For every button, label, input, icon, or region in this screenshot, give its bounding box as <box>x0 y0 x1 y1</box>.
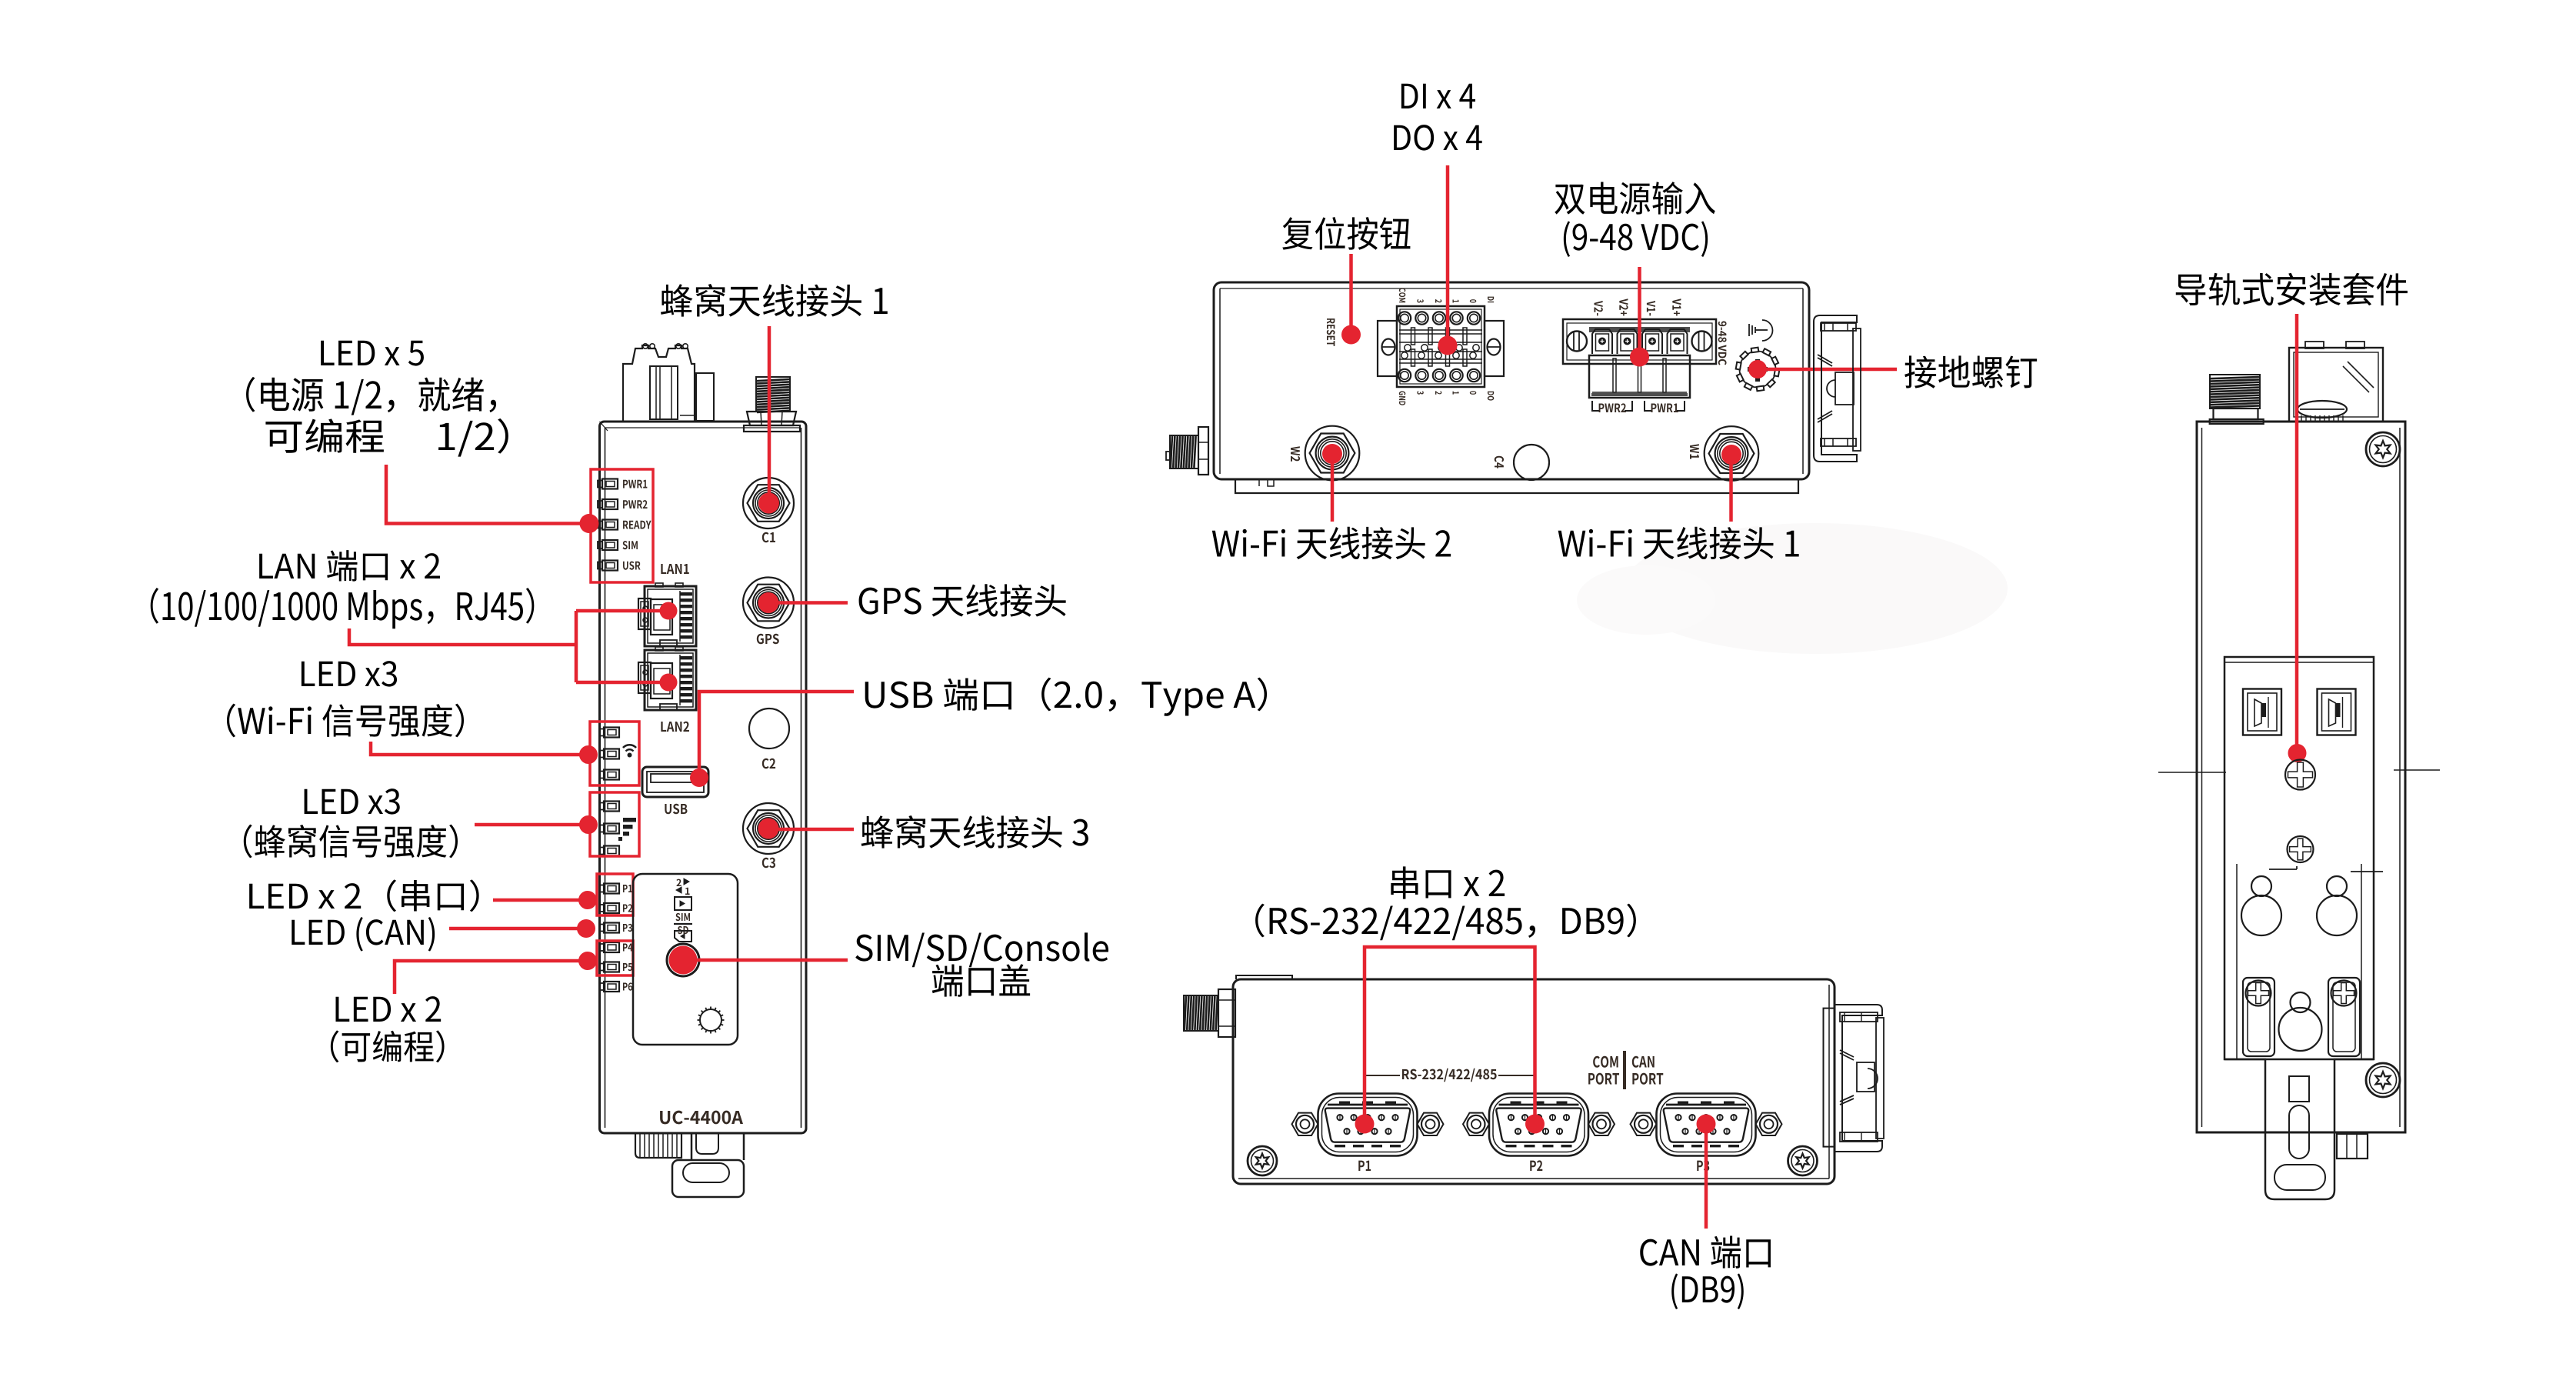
front view: red highlight box around Wi-Fi LEDs <box>590 722 639 785</box>
top view: power terminal labels V2- V2+ V1- V1+ <box>1595 298 1681 315</box>
front view: red callout dot P1 P2 <box>578 891 597 909</box>
top view: label Wi-Fi antenna connector 2 <box>1212 527 1451 560</box>
front view: GPS antenna connector <box>743 578 794 628</box>
front view: label GPS connector <box>757 634 779 645</box>
wire: red callout line CAN port label <box>1705 1124 1708 1229</box>
rear view: bracket center pin <box>2279 992 2322 1051</box>
wire: red callout bracket serial ports <box>1365 947 1535 1124</box>
top view: red callout dot W2 <box>1322 444 1342 464</box>
front view: label LED x3 cellular <box>244 789 458 858</box>
bottom view: red callout dot P2 <box>1525 1115 1545 1134</box>
wire: red callout line DI/DO label <box>1446 165 1450 343</box>
front view: label USB <box>665 804 687 815</box>
top view: label W1 <box>1690 444 1699 458</box>
bottom view: serial port P2 (DB9) <box>1463 1094 1615 1156</box>
front view: red callout dot cellular LEDs <box>579 815 598 834</box>
rear view: bracket tail <box>2224 1059 2374 1199</box>
front view: serial/CAN/programmable LED column P1-P6 <box>599 884 632 992</box>
bottom view: left antenna stub (side) <box>1184 989 1235 1037</box>
bottom view: torx screw left <box>1248 1146 1277 1175</box>
front view: LAN1 RJ45 port <box>638 583 696 646</box>
top view: RESET button label <box>1327 318 1335 346</box>
front view: red callout dot USB <box>690 769 708 787</box>
front view: cover thumbscrew <box>698 1007 725 1034</box>
wire: red callout line programmable LED label <box>395 961 580 994</box>
wire: red callout line cellular antenna 3 <box>775 828 854 832</box>
wire: red callout bracket LAN ports <box>349 628 576 645</box>
bottom view: COM PORT / CAN PORT labels <box>1588 1051 1663 1089</box>
front view: red callout dot Wi-Fi LEDs <box>579 745 598 764</box>
top view: label reset button <box>1282 217 1410 250</box>
front view: label cellular antenna connector 1 <box>661 284 888 317</box>
wire: red callout line power input label <box>1638 267 1641 355</box>
rear view: label DIN rail mounting kit <box>2176 273 2408 306</box>
top view: grounding screw <box>1736 348 1780 392</box>
front view: cellular antenna connector C1 <box>743 478 794 528</box>
top view: device body <box>1214 282 1809 479</box>
top view: red callout dot W1 <box>1721 445 1741 465</box>
front view: red callout dot SIM/SD cover <box>669 946 698 975</box>
rear view: red callout dot bracket <box>2288 744 2307 762</box>
top view: left Wi-Fi antenna stub (side) <box>1166 427 1208 475</box>
top view: red callout dot DI/DO <box>1438 336 1458 355</box>
rear view: slotted tab right with screw <box>2328 978 2360 1056</box>
wire: red callout line serial LED label <box>493 899 580 902</box>
front view: device body (UC-4400A front panel) <box>600 422 807 1133</box>
top view: power terminal block <box>1563 319 1716 398</box>
front view: label LED x2 serial <box>249 879 479 912</box>
front view: label LED CAN <box>292 917 435 952</box>
front view: red highlight box P1 P2 <box>597 874 633 915</box>
front view: SIM/SD/console cover plate <box>633 874 738 1045</box>
front view: top DIN-rail clip <box>623 344 714 421</box>
top view: label W2 <box>1291 446 1300 462</box>
front view: label LAN ports x2 <box>151 550 535 628</box>
bottom view: device body <box>1233 975 1835 1184</box>
front view: label C2 <box>762 759 775 769</box>
rear view: bracket phillips screw 1 <box>2285 760 2315 790</box>
front view: red callout dot GPS <box>758 592 779 613</box>
wire: red callout line cellular LED label <box>475 823 581 827</box>
front view: cellular signal bars icon <box>618 818 636 841</box>
wire: red callout line GPS label <box>775 601 848 605</box>
rear view: torx screw bottom <box>2366 1063 2400 1097</box>
front view: Wi-Fi icon <box>623 745 636 757</box>
front view: red callout dot on LAN1 <box>660 602 678 620</box>
bottom view: label P2 <box>1530 1160 1542 1171</box>
front view: label LAN2 <box>661 722 689 732</box>
top view: Wi-Fi antenna connector W1 <box>1705 426 1759 481</box>
front view: SIM/SD cover screw button <box>667 944 699 976</box>
front view: red callout dot P3 <box>577 919 595 938</box>
bottom view: serial port P1 (DB9) <box>1292 1094 1444 1156</box>
front view: label LED x2 programmable <box>331 996 445 1062</box>
bottom view: label serial ports <box>1255 866 1636 940</box>
front view: bottom DIN clip spring <box>635 1133 681 1158</box>
bottom view: label P1 <box>1358 1161 1371 1171</box>
bottom view: red callout dot P3 <box>1697 1115 1716 1134</box>
front view: label LED x 5 <box>246 341 508 457</box>
wire: red callout line reset button <box>1349 254 1353 332</box>
bottom view: right DIN-rail clip (side) <box>1824 1005 1885 1152</box>
front view: label LAN1 <box>661 564 688 574</box>
rear view: centerline marks <box>2158 772 2226 773</box>
top view: Wi-Fi antenna connector W2 <box>1305 426 1360 481</box>
front view: red highlight box around 5 LEDs <box>591 469 653 582</box>
wire: red callout line DIN rail kit label <box>2295 314 2299 750</box>
rear view: DIN-rail mounting bracket plate <box>2224 657 2374 1059</box>
top view: DI/DO terminal block <box>1378 306 1504 387</box>
top view: red callout dot power input <box>1630 348 1649 367</box>
wire: red callout line CAN LED label <box>449 927 578 931</box>
rear view: torx screw top <box>2366 432 2400 466</box>
bottom view: red callout dot P1 <box>1355 1115 1375 1134</box>
front view: red callout dot P4 P5 <box>578 952 597 970</box>
front view: red highlight box around cellular LEDs <box>590 792 639 856</box>
front view: Wi-Fi signal LED group <box>599 728 619 780</box>
top view: label C4 <box>1495 456 1504 468</box>
wire: red callout line LED x5 label <box>386 465 580 524</box>
front view: label C3 <box>762 858 775 869</box>
front view: cellular antenna connector C1 stub (top) <box>744 377 800 432</box>
top view: label 9-48 VDC <box>1718 322 1727 365</box>
top view: red callout dot RESET <box>1341 325 1361 345</box>
top view: right DIN-rail clip (side) <box>1814 315 1861 462</box>
top view: DI/DO pin labels <box>1399 288 1494 405</box>
bottom view: label P3 <box>1697 1160 1709 1171</box>
wire: red callout line cellular antenna 1 <box>768 326 771 500</box>
front view: USB port connector <box>642 767 708 797</box>
front view: model label UC-4400A <box>660 1111 743 1125</box>
front view: red callout dot for LED x5 <box>580 514 599 533</box>
wire: red callout line Wi-Fi antenna 1 <box>1729 458 1733 522</box>
top view: label Wi-Fi antenna connector 1 <box>1558 527 1799 560</box>
top view: PWR2 PWR1 labels with brackets <box>1592 401 1685 412</box>
wire: red callout line SIM/SD label <box>696 959 848 962</box>
wire: red callout line USB label <box>699 692 854 778</box>
rear view: small tab line <box>2351 871 2383 872</box>
rear view: slotted tab left with screw <box>2243 978 2274 1056</box>
bottom view: RS-232/422/485 pointer bracket <box>1365 1069 1535 1082</box>
wire: red callout line Wi-Fi antenna 2 <box>1331 457 1335 522</box>
front view: label LED x3 Wi-Fi <box>227 661 464 737</box>
rear view: bracket phillips screw 2 <box>2288 836 2314 862</box>
front view: label cellular antenna connector 3 <box>861 815 1088 849</box>
front view: LAN2 RJ45 port <box>638 647 696 710</box>
front view: bottom DIN clip bracket <box>672 1133 744 1197</box>
front view: red callout dot C3 <box>758 819 779 839</box>
front view: LED group (PWR1 PWR2 READY SIM USR) <box>598 479 651 571</box>
rear view: bracket pin right <box>2317 876 2357 935</box>
top view: label DI x4 / DO x4 <box>1394 84 1482 151</box>
front view: label C1 <box>762 532 775 543</box>
front view: cellular antenna connector C3 <box>743 803 794 854</box>
front view: red highlight box P4 P5 <box>597 941 633 975</box>
bottom view: label CAN port <box>1640 1235 1771 1309</box>
bottom view: torx screw right <box>1788 1146 1818 1175</box>
rear view: top DIN clip (edge) <box>2289 342 2383 422</box>
top view: label dual power input <box>1555 182 1715 257</box>
top view: faint background smudge <box>1623 523 2008 654</box>
rear view: DIN rail hook windows <box>2243 689 2281 735</box>
bottom view: CAN port P3 (DB9) <box>1631 1094 1782 1156</box>
front view: C2 knockout circle <box>749 709 789 749</box>
front view: red callout dot C1 <box>758 493 779 514</box>
top view: C4 knockout circle <box>1514 445 1549 480</box>
top view: label grounding screw <box>1905 355 2037 388</box>
front view: cellular signal LED group <box>599 802 619 856</box>
rear view: device body <box>2197 422 2405 1132</box>
wire: red callout line ground screw label <box>1765 368 1897 372</box>
front view: label USB port <box>865 678 1267 716</box>
top view: red callout dot ground screw <box>1748 360 1767 378</box>
rear view: bracket pin left <box>2241 876 2281 935</box>
rear view: antenna stub top <box>2210 375 2264 424</box>
top view: bottom lip <box>1235 479 1798 493</box>
wire: red callout line Wi-Fi LED label <box>371 742 581 755</box>
top view: ground symbol <box>1749 320 1773 341</box>
rear view: bottom connector stub <box>2337 1134 2368 1159</box>
front view: label SIM/SD/Console cover <box>855 932 1108 996</box>
front view: red callout dot on LAN2 <box>660 674 678 692</box>
